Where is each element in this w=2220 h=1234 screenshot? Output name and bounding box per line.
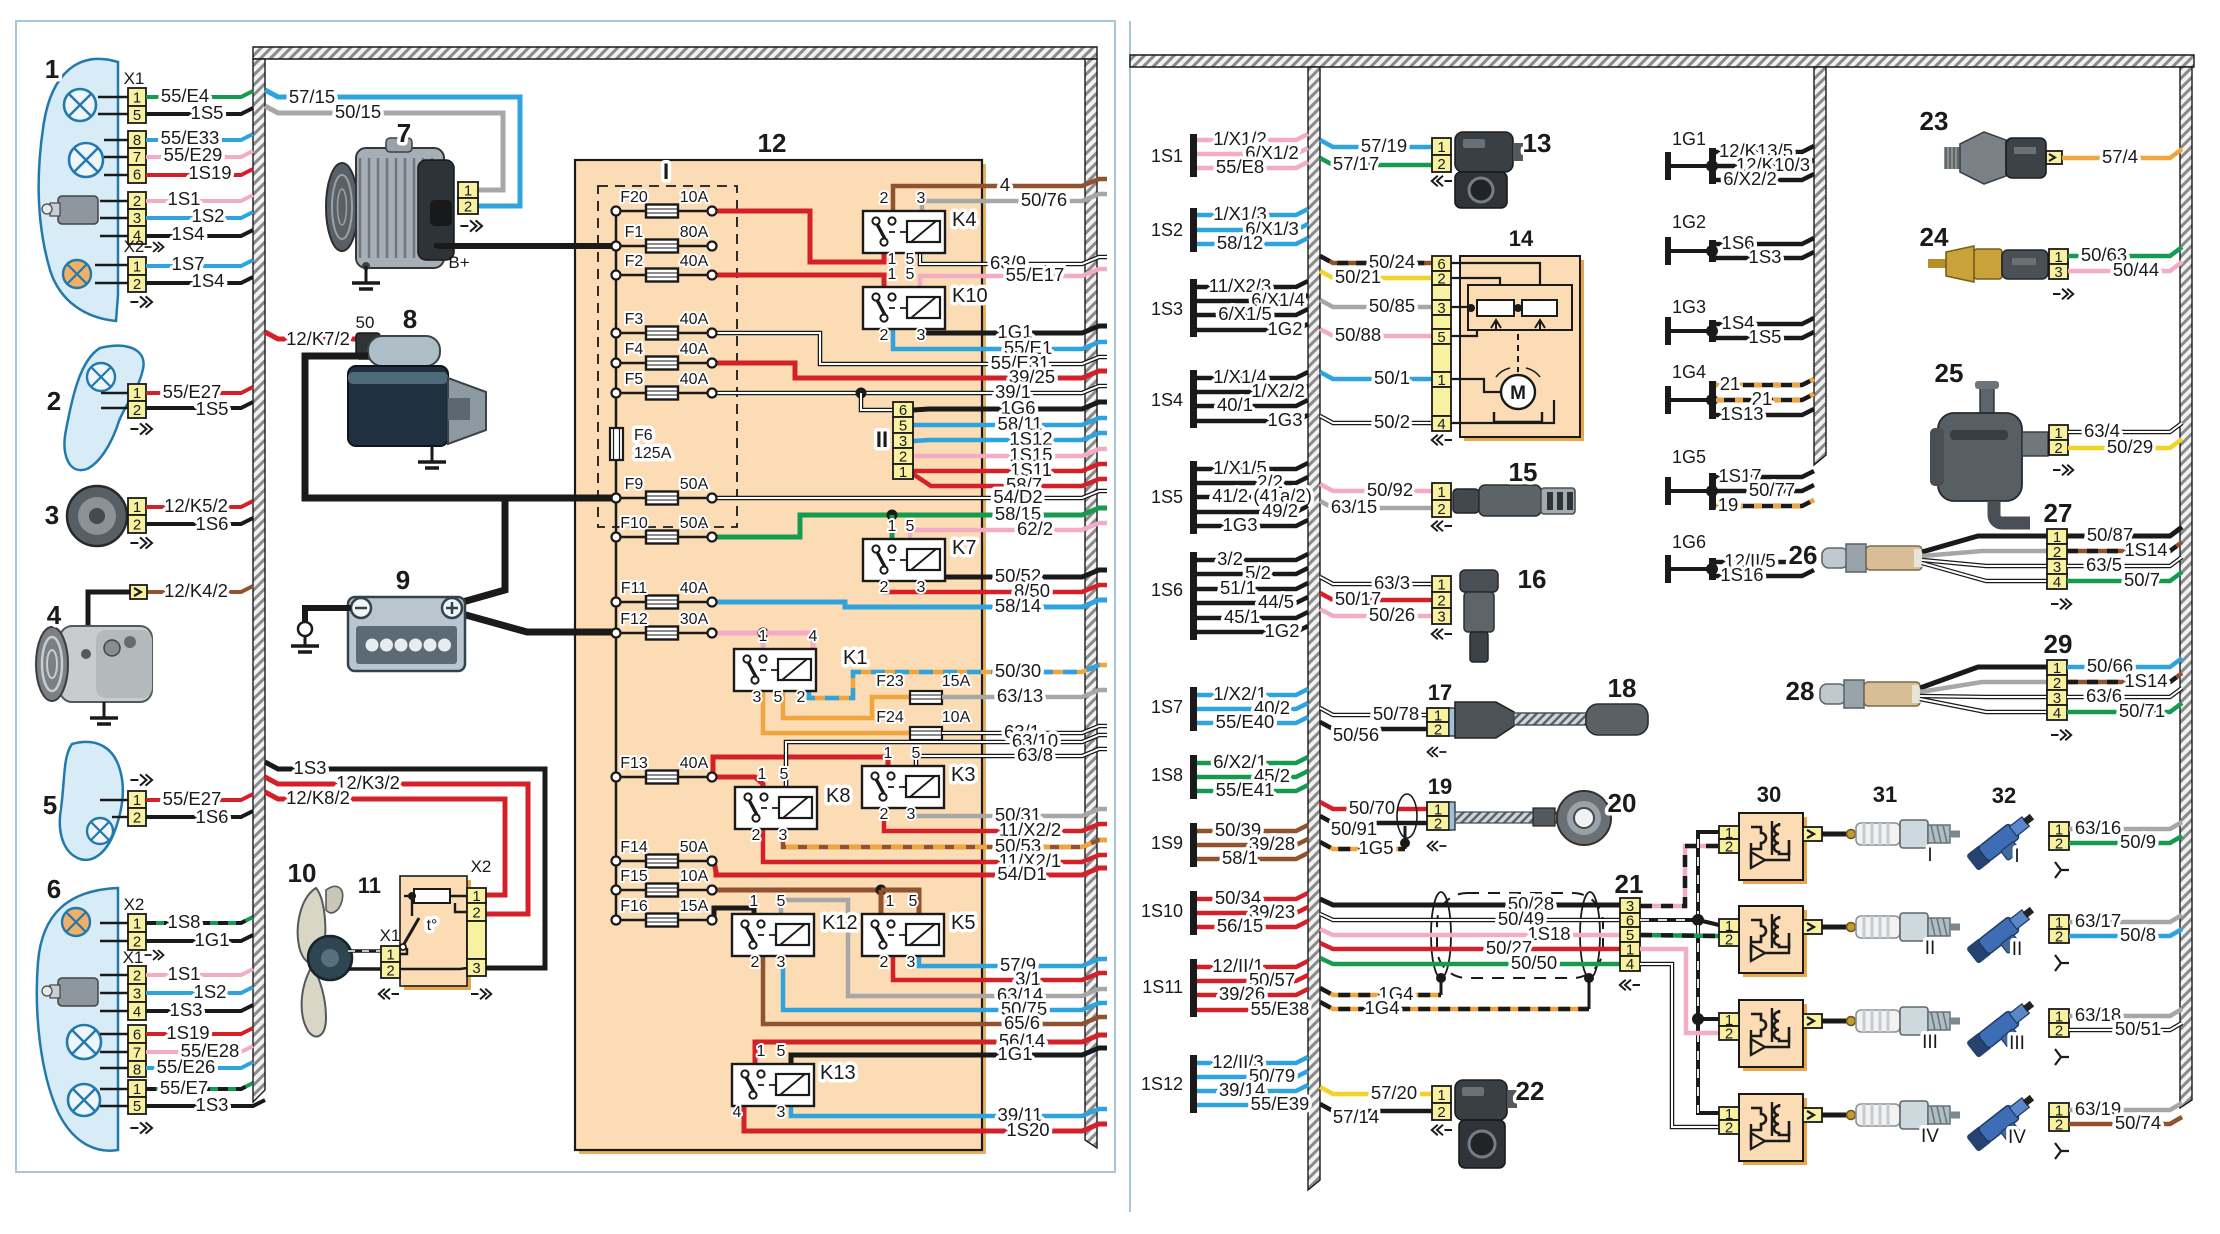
svg-text:55/E39: 55/E39 (1251, 1093, 1310, 1114)
svg-text:2: 2 (1434, 722, 1442, 739)
svg-text:2: 2 (751, 954, 760, 971)
svg-text:1G2: 1G2 (1268, 318, 1303, 339)
fuse F6 vertical 125A (610, 428, 623, 460)
wire K13 pin3 39/11 (791, 1104, 1107, 1116)
svg-text:1G4: 1G4 (1365, 997, 1400, 1018)
svg-text:4: 4 (1626, 956, 1634, 973)
harness band left vertical (left panel) (253, 59, 265, 1102)
wire 1S1 (headlight 6) (146, 969, 253, 975)
wire 50/63 (2068, 247, 2182, 256)
relay K1 (734, 649, 816, 691)
wire 55/E33 (146, 134, 253, 140)
fog lamp connector (128, 791, 146, 808)
harness band vertical 1 (right panel) (1308, 67, 1320, 1190)
fuse F20 10A (616, 210, 712, 213)
coil 30-IV pins (1719, 1107, 1739, 1120)
wire battery positive to junction (452, 498, 505, 605)
fuse-relay box 12 body (579, 164, 986, 1154)
dashed group I inside fuse box (598, 186, 737, 527)
svg-text:K5: K5 (951, 912, 975, 934)
ignition coil 30-I body (1743, 817, 1807, 884)
alternator connector pins (458, 182, 478, 198)
svg-text:2: 2 (880, 327, 889, 344)
wire 63/1 (942, 726, 1107, 733)
left panel border (16, 21, 1115, 1172)
svg-text:57/14: 57/14 (1333, 1106, 1379, 1127)
wire 50/57 (1S11) (1197, 975, 1308, 981)
wire 21 pin4 to coil IV pin2 (1640, 964, 1719, 1127)
wire connector II pin1 58/7 (913, 474, 1107, 486)
svg-text:K4: K4 (952, 209, 976, 231)
svg-text:F2: F2 (625, 253, 644, 270)
coil 30-II output pin (1803, 920, 1822, 934)
svg-text:63/13: 63/13 (997, 685, 1043, 706)
oil valve 15 connector (1432, 483, 1451, 500)
svg-text:F23: F23 (876, 673, 904, 690)
svg-text:1: 1 (1437, 484, 1445, 501)
wire 63/17 (2069, 915, 2182, 922)
wire 58/1 (1S9) (1197, 853, 1308, 859)
wire 1S17 (1G5) (1716, 471, 1814, 477)
svg-text:1G3: 1G3 (1223, 514, 1258, 535)
svg-text:50/7: 50/7 (2124, 569, 2160, 590)
throttle assembly 14 body (1464, 260, 1584, 441)
wire F13 to relay K3 pin1 (713, 757, 888, 777)
wire 50/17 (1320, 593, 1432, 600)
svg-text:2: 2 (880, 190, 889, 207)
svg-text:3: 3 (472, 960, 480, 977)
svg-text:1S1: 1S1 (1151, 146, 1183, 166)
svg-text:4: 4 (2053, 574, 2061, 591)
wire K5 pin2 3/1 (893, 956, 1107, 980)
lamp 2 bulb (87, 363, 115, 391)
horn connector (128, 498, 146, 515)
svg-text:1G5: 1G5 (1359, 837, 1394, 858)
svg-text:2: 2 (1437, 593, 1445, 610)
wire 50/74 (2069, 1117, 2182, 1124)
wire F15 to relay K5 pins (714, 888, 881, 893)
svg-text:31: 31 (1873, 782, 1897, 807)
wire 55/E29 (146, 151, 253, 157)
svg-text:3: 3 (45, 500, 59, 530)
svg-text:1: 1 (133, 385, 141, 402)
spark plug 31-IV (1847, 1111, 1856, 1120)
fog lamp 5 housing (60, 742, 123, 860)
svg-text:4: 4 (2053, 705, 2061, 722)
svg-text:50/30: 50/30 (995, 660, 1041, 681)
wire 1/X1/4 (1S4) (1197, 372, 1308, 378)
relay K13 (732, 1064, 814, 1106)
wire 63/8 (916, 749, 1107, 766)
svg-text:1G5: 1G5 (1672, 447, 1706, 467)
svg-text:1: 1 (45, 54, 59, 84)
wire 6/X2/2 (1G1) (1716, 174, 1814, 180)
svg-text:40A: 40A (680, 253, 709, 270)
side turn lamp 2 housing (65, 346, 144, 470)
relay K5 (862, 914, 944, 956)
wire 19 (1G5) (1716, 500, 1814, 506)
svg-text:1S4: 1S4 (1151, 390, 1183, 410)
coil 30-I output pin (1803, 827, 1822, 841)
svg-text:2: 2 (2055, 929, 2063, 946)
svg-text:1: 1 (757, 1043, 766, 1060)
svg-text:3: 3 (907, 806, 916, 823)
wire F3 to 55/E31 (712, 333, 1107, 364)
headlight 1 lamp wiring (98, 96, 128, 98)
svg-text:2: 2 (1434, 816, 1442, 833)
wire 50/87 (2067, 527, 2182, 536)
svg-text:50/29: 50/29 (2107, 436, 2153, 457)
lamp 2 wiring (101, 392, 128, 394)
wire 57/17 (1320, 158, 1432, 165)
svg-text:25: 25 (1935, 358, 1964, 388)
svg-text:50/1: 50/1 (1374, 367, 1410, 388)
injector 32-I connector (2049, 822, 2069, 836)
alternator ground (365, 266, 368, 283)
wire 55/E39 (1S12) (1197, 1099, 1308, 1105)
svg-text:12/K7/2: 12/K7/2 (286, 328, 350, 349)
svg-text:I: I (2014, 846, 2019, 867)
wire 1G4 shield a (1320, 988, 1441, 995)
svg-text:1S3: 1S3 (1151, 299, 1183, 319)
svg-text:1S8: 1S8 (1151, 765, 1183, 785)
headlight 1 high-beam lamp (69, 143, 103, 177)
svg-text:40A: 40A (680, 311, 709, 328)
right panel left border (1129, 21, 1131, 1212)
svg-text:1G3: 1G3 (1268, 409, 1303, 430)
wire 1S3 (headlight 6 pin5) (146, 1100, 265, 1106)
wire K10 pin5 55/E17 (920, 269, 1107, 287)
coil 30-III internals (1771, 1008, 1773, 1042)
wire 1S4 (146, 230, 253, 236)
svg-text:2: 2 (899, 449, 907, 466)
compressor feed wire (88, 592, 130, 626)
coil 30-II pins (1719, 919, 1739, 932)
wire 50/39 (1S9) (1197, 825, 1308, 831)
svg-text:63/15: 63/15 (1331, 496, 1377, 517)
svg-text:4: 4 (733, 1104, 742, 1121)
svg-text:50/51: 50/51 (2115, 1018, 2161, 1039)
fuse F5 40A (616, 392, 712, 395)
wire 55/E7 (146, 1083, 253, 1089)
wire 3/2 (1S6) (1197, 554, 1308, 560)
svg-text:10A: 10A (942, 709, 971, 726)
svg-text:1G1: 1G1 (1672, 129, 1706, 149)
svg-text:1G2: 1G2 (1265, 620, 1300, 641)
wire 12/K13/5 (1G1) (1716, 146, 1814, 152)
svg-text:1: 1 (758, 766, 767, 783)
svg-text:X2: X2 (124, 895, 145, 914)
wire K7 pin5 62/2 (910, 523, 1107, 539)
svg-text:3: 3 (779, 827, 788, 844)
svg-text:1S6: 1S6 (196, 806, 229, 827)
wire 63/6 (2067, 688, 2182, 697)
headlight 6 lamp wiring (100, 922, 128, 924)
wire 40/1 (1S4) (1197, 400, 1308, 406)
wire K13 pin5 1G1 (791, 1048, 1107, 1064)
A/C compressor 4 (36, 626, 152, 702)
wire K12 pin2 65/6 (763, 956, 1107, 1024)
wire 6/X1/4 (1S3) (1197, 295, 1308, 301)
svg-text:19: 19 (1428, 774, 1452, 799)
fuse F9 50A (616, 497, 712, 500)
svg-text:1S3: 1S3 (170, 999, 203, 1020)
svg-text:1: 1 (759, 628, 768, 645)
svg-text:50A: 50A (680, 515, 709, 532)
svg-text:50/50: 50/50 (1511, 952, 1557, 973)
svg-text:23: 23 (1920, 106, 1949, 136)
svg-text:6/X2/2: 6/X2/2 (1723, 168, 1777, 189)
svg-text:F1: F1 (625, 224, 644, 241)
oxygen sensor 26 leads (1922, 536, 2047, 552)
svg-text:1S4: 1S4 (192, 270, 225, 291)
wire 6/X1/5 (1S3) (1197, 309, 1308, 315)
coil 30-I pins (1719, 826, 1739, 839)
svg-text:12/K4/2: 12/K4/2 (164, 580, 228, 601)
svg-text:II: II (876, 427, 888, 452)
wire 1G2 (1S6) (1197, 626, 1308, 632)
fuse F16 15A (616, 919, 712, 922)
svg-text:F16: F16 (620, 898, 648, 915)
wire K10 pin2 55/E1 (893, 329, 1107, 349)
svg-text:1: 1 (884, 745, 893, 762)
relay K3 (862, 766, 944, 808)
svg-text:30: 30 (1757, 782, 1781, 807)
svg-text:F15: F15 (620, 868, 648, 885)
svg-text:50/2: 50/2 (1374, 411, 1410, 432)
svg-text:21: 21 (1720, 373, 1741, 394)
wire 21 pin6 screen (1640, 918, 1698, 922)
wire 1S2 (headlight 6) (146, 987, 253, 993)
MAP sensor 22 body (1455, 1080, 1507, 1120)
headlight 1 low-beam lamp (64, 89, 96, 121)
wire 50/44 (2068, 262, 2182, 271)
svg-text:2: 2 (1437, 156, 1445, 173)
svg-text:54/D1: 54/D1 (997, 863, 1046, 884)
wire 39/28 (1S9) (1197, 839, 1308, 845)
svg-text:2: 2 (2054, 440, 2062, 457)
svg-text:1S19: 1S19 (188, 162, 231, 183)
wire K12 pin3 50/75 (783, 956, 1107, 1010)
svg-text:5: 5 (774, 689, 783, 706)
wire F12 to relay K1 (712, 631, 763, 636)
wire F5 to 39/1 (712, 386, 1107, 393)
svg-text:5: 5 (906, 266, 915, 283)
wire 1S6 (fog lamp) (146, 811, 253, 817)
wire 50/26 (1320, 609, 1432, 616)
svg-text:II: II (2012, 939, 2023, 960)
wire 50/24 (1320, 256, 1432, 263)
svg-text:57/4: 57/4 (2102, 146, 2138, 167)
svg-text:11: 11 (358, 873, 381, 898)
svg-text:2: 2 (1437, 501, 1445, 518)
svg-text:2: 2 (47, 386, 61, 416)
wire 50/56 (1320, 722, 1427, 729)
wire 50/77 (1G5) (1716, 485, 1814, 491)
wire starter feed to fuse F9 (305, 356, 616, 498)
svg-text:F14: F14 (620, 839, 648, 856)
headlight 1 leveling motor (58, 196, 98, 224)
svg-text:3: 3 (777, 954, 786, 971)
svg-text:1S5: 1S5 (196, 398, 229, 419)
wire 12/K4/2 (146, 586, 253, 592)
svg-text:5: 5 (777, 1043, 786, 1060)
svg-text:5: 5 (133, 1098, 141, 1115)
svg-text:1: 1 (888, 518, 897, 535)
svg-text:t°: t° (427, 917, 438, 934)
svg-text:5: 5 (899, 418, 907, 435)
wire 1/X1/3 (1S2) (1197, 209, 1308, 215)
wire 6/X1/3 (1S2) (1197, 224, 1308, 230)
svg-text:17: 17 (1428, 680, 1452, 705)
headlight 6 leveling motor (58, 978, 98, 1006)
coil 30-IV output pin (1803, 1108, 1822, 1122)
wire 55/E4 (146, 91, 253, 97)
wire F24 to K1 pin3 (763, 690, 910, 733)
wire 55/E8 (1S1) (1197, 162, 1308, 168)
wire K7 pin2 8/50 (885, 581, 1107, 592)
svg-text:26: 26 (1789, 540, 1818, 570)
wire 63/18 (2069, 1009, 2182, 1016)
wire 55/E40 (1S7) (1197, 717, 1308, 723)
fan motor wire ground (348, 967, 381, 971)
svg-text:63/16: 63/16 (2075, 817, 2121, 838)
svg-text:44/5: 44/5 (1258, 591, 1294, 612)
wire 1/X2/1 (1S7) (1197, 689, 1308, 695)
wire 11/X2/3 (1S3) (1197, 281, 1308, 287)
oxygen sensor 28 leads (1920, 667, 2047, 688)
svg-text:1S20: 1S20 (1006, 1119, 1049, 1140)
svg-text:F4: F4 (625, 341, 644, 358)
wire 50/50 (1320, 958, 1620, 964)
purge valve 25 (1980, 385, 1994, 415)
temp sensor 16 connector (1432, 576, 1451, 592)
battery 9 (348, 597, 465, 671)
svg-text:55/E26: 55/E26 (157, 1056, 216, 1077)
wire 1S8 (146, 917, 253, 923)
svg-text:1: 1 (386, 947, 394, 964)
phase valve 15 body (1453, 489, 1479, 513)
svg-text:2: 2 (472, 905, 480, 922)
wire 63/19 (2069, 1103, 2182, 1110)
svg-text:1: 1 (1437, 577, 1445, 594)
svg-text:3: 3 (917, 579, 926, 596)
HT lead to plug I (1822, 832, 1848, 837)
svg-text:4: 4 (133, 1004, 141, 1021)
wire 21 pin5 to coil II pin2 (1640, 935, 1719, 936)
wire 1S7 (146, 260, 253, 266)
injector 32-II (1966, 902, 2044, 972)
svg-text:5: 5 (43, 790, 57, 820)
svg-text:2: 2 (752, 827, 761, 844)
svg-text:1S11: 1S11 (1142, 977, 1183, 997)
svg-text:1S5: 1S5 (1749, 326, 1782, 347)
svg-text:10A: 10A (680, 189, 709, 206)
svg-text:40/1: 40/1 (1217, 394, 1253, 415)
wire 12/K7/2 (265, 332, 362, 339)
wire 12/K10/3 (1G1) (1716, 160, 1814, 166)
fog lamp 5 bulb (87, 818, 113, 844)
wire 57/15 (265, 90, 520, 206)
wire 45/1 (1S6) (1197, 612, 1308, 618)
svg-text:29: 29 (2044, 629, 2073, 659)
wire 1S14 (29) (2067, 673, 2182, 682)
svg-text:27: 27 (2044, 498, 2073, 528)
svg-text:40A: 40A (680, 580, 709, 597)
svg-text:45/1: 45/1 (1224, 606, 1260, 627)
svg-text:15: 15 (1509, 457, 1538, 487)
svg-text:19: 19 (1718, 494, 1739, 515)
fuse F1 80A (616, 245, 712, 248)
thermal switch inside block 11 (411, 896, 413, 916)
svg-text:10A: 10A (680, 868, 709, 885)
svg-text:2: 2 (880, 954, 889, 971)
wire 12/II/1 (1S11) (1197, 961, 1308, 967)
svg-text:50/85: 50/85 (1369, 295, 1415, 316)
wire 40/2 (1S7) (1197, 703, 1308, 709)
svg-text:55/E38: 55/E38 (1251, 998, 1310, 1019)
svg-text:3: 3 (753, 689, 762, 706)
fuse F4 40A (616, 362, 712, 365)
wire 1G1 (headlight 6) (146, 935, 253, 941)
injector 32-IV (1966, 1090, 2044, 1160)
spark plug 31-III (1847, 1017, 1856, 1026)
throttle 14 internal potentiometers (1451, 263, 1540, 285)
svg-text:16: 16 (1518, 564, 1547, 594)
resistor element inside block 11 (414, 889, 450, 903)
svg-text:5: 5 (777, 893, 786, 910)
wire 12/K3/2 (265, 777, 528, 914)
svg-text:7: 7 (397, 118, 411, 148)
battery negative to chassis ground (305, 608, 351, 622)
junction dot on 39/1 (856, 388, 867, 399)
svg-text:1: 1 (750, 893, 759, 910)
ignition coil 30-III body (1743, 1004, 1807, 1071)
svg-text:12: 12 (758, 128, 787, 158)
wire connector II pin6 1G6 (913, 402, 1107, 410)
svg-text:63/8: 63/8 (1017, 744, 1053, 765)
wire K5 pin3 57/9 (919, 956, 1107, 966)
wire 1S1 (146, 195, 253, 201)
wire 1S18 (1320, 929, 1620, 935)
svg-text:2: 2 (1725, 839, 1733, 856)
wire K3 pin3 50/31 (911, 808, 1107, 816)
fuse F15 10A (616, 889, 712, 892)
svg-text:3: 3 (907, 954, 916, 971)
svg-text:58/1: 58/1 (1222, 847, 1258, 868)
svg-text:3: 3 (133, 986, 141, 1003)
headlight 6 low-beam lamp (68, 1084, 100, 1116)
svg-text:F9: F9 (625, 476, 644, 493)
svg-text:1: 1 (1437, 139, 1445, 156)
svg-text:1S10: 1S10 (1141, 901, 1183, 921)
wire 50/34 (1S10) (1197, 893, 1308, 899)
wire 5/2 (1S6) (1197, 568, 1308, 574)
svg-text:F11: F11 (621, 580, 647, 597)
wire K4 pin5 63/9 (920, 253, 1107, 264)
svg-text:7: 7 (133, 149, 141, 166)
wire 12/K5/2 (146, 501, 253, 507)
svg-text:50/77: 50/77 (1749, 479, 1795, 500)
wire 63/4 (2068, 423, 2182, 432)
svg-text:51/1: 51/1 (1220, 577, 1256, 598)
coil 30-III pins (1719, 1013, 1739, 1026)
svg-text:1: 1 (888, 266, 897, 283)
wire to connector II pin6 (861, 393, 893, 410)
fuse F23 15A (910, 691, 942, 704)
svg-text:50/15: 50/15 (335, 101, 381, 122)
svg-text:15A: 15A (942, 673, 971, 690)
